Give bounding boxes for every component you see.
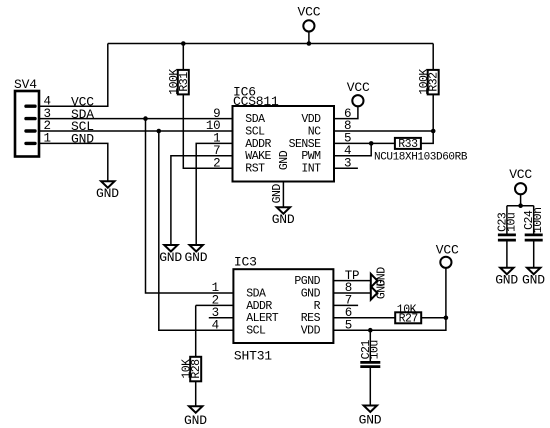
node junction R31/bus [181, 41, 186, 46]
svg-text:ADDR: ADDR [245, 138, 271, 151]
pin numbers IC6 right [344, 107, 351, 171]
wire IC6 WAKE to ground [171, 156, 233, 245]
svg-text:VDD: VDD [301, 325, 321, 338]
svg-text:VCC: VCC [509, 167, 532, 182]
resistor R33 thermistor [374, 131, 468, 164]
wire SCL from SV4 pin 2 to IC6 [39, 130, 233, 132]
wire IC3 ADDR pin 2 [196, 304, 234, 306]
svg-text:R33: R33 [398, 138, 418, 151]
svg-text:GND: GND [184, 413, 207, 428]
pin GND of IC6 down to ground [271, 182, 284, 208]
svg-text:GND: GND [359, 413, 382, 428]
svg-text:IC3: IC3 [234, 255, 257, 270]
ground symbol below C21 [359, 406, 382, 428]
wire IC6 VDD pin 6 to VCC [334, 106, 358, 118]
svg-text:WAKE: WAKE [245, 150, 271, 163]
wire IC6 NC pin 8 to R32 node [334, 130, 433, 132]
svg-text:R28: R28 [190, 359, 203, 379]
ground symbol right pin 8 [371, 279, 389, 299]
svg-text:VCC: VCC [436, 243, 459, 258]
wire IC3 VDD pin 5 to VCC node [333, 318, 446, 330]
svg-text:4: 4 [212, 318, 219, 332]
capacitor C24 100n [523, 206, 545, 268]
node SENSE/PWM junction [369, 141, 374, 146]
svg-text:RST: RST [245, 163, 265, 176]
svg-text:SHT31: SHT31 [234, 348, 272, 363]
resistor R32 100K pull-up [418, 44, 441, 132]
svg-text:GND: GND [271, 184, 284, 204]
svg-text:PWM: PWM [301, 150, 321, 163]
wire top VCC bus [108, 43, 433, 45]
wire IC6 ADDR to ground [196, 143, 232, 244]
svg-text:GND: GND [301, 287, 321, 300]
resistor R28 10K on ADDR [180, 305, 203, 406]
node VDD/C21 junction [368, 328, 373, 333]
svg-text:ALERT: ALERT [246, 312, 279, 325]
ground symbol WAKE [159, 245, 182, 265]
svg-text:SENSE: SENSE [289, 138, 322, 151]
power symbol VCC far right [509, 167, 532, 206]
wire VCC to C23 and C24 [507, 205, 534, 207]
svg-text:GND: GND [375, 279, 388, 299]
svg-text:ADDR: ADDR [246, 300, 272, 313]
svg-text:R32: R32 [428, 72, 441, 92]
wire SDA branch down to IC3 [146, 119, 234, 293]
ground symbol below C23 [495, 268, 518, 288]
svg-text:NC: NC [308, 125, 321, 138]
svg-text:VCC: VCC [347, 80, 370, 95]
svg-text:10K: 10K [397, 304, 417, 317]
svg-text:GND: GND [185, 250, 208, 265]
svg-text:PGND: PGND [294, 275, 320, 288]
svg-text:VCC: VCC [298, 5, 321, 20]
svg-text:VDD: VDD [301, 113, 321, 126]
svg-text:GND: GND [495, 273, 518, 288]
node RES/VCC junction [444, 316, 449, 321]
resistor R31 100K pull-up [168, 44, 233, 169]
node SDA branch junction [143, 116, 148, 121]
ground symbol below SV4 [96, 181, 119, 201]
wire SCL branch down to IC3 [159, 131, 234, 330]
ground symbol below IC6 [272, 207, 295, 227]
wire GND from SV4 pin 1 [39, 143, 108, 181]
power symbol VCC top [298, 5, 321, 44]
pin numbers IC3 left [212, 281, 219, 332]
svg-text:SCL: SCL [246, 325, 266, 338]
svg-text:GND: GND [522, 273, 545, 288]
svg-text:R: R [314, 300, 321, 313]
wire IC3 RES pin 6 to R27 [333, 317, 395, 319]
pin numbers IC3 right [345, 269, 359, 333]
capacitor C21 10u [360, 330, 382, 405]
wire IC6 PWM pin 4 up to SENSE [334, 143, 371, 155]
power symbol VCC at IC3 [436, 243, 459, 268]
wire VCC from SV4 pin 4 up to top bus [39, 44, 108, 107]
svg-text:R31: R31 [178, 72, 191, 92]
wire IC3 PGND TP to ground [333, 280, 370, 282]
svg-text:SDA: SDA [245, 113, 265, 126]
svg-text:2: 2 [213, 156, 220, 170]
IC U IC3 SHT31 [233, 255, 333, 364]
svg-text:SDA: SDA [246, 287, 266, 300]
svg-text:10u: 10u [505, 213, 518, 232]
ground symbol below C24 [522, 268, 545, 288]
ground symbol right TP [371, 267, 389, 287]
wire IC6 SENSE pin 5 to R33 [334, 142, 395, 144]
resistor R27 10K [395, 304, 446, 326]
node SCL branch junction [157, 129, 162, 134]
capacitor C23 10u [496, 206, 518, 268]
svg-text:10u: 10u [369, 340, 382, 359]
svg-text:INT: INT [301, 163, 321, 176]
svg-text:100n: 100n [532, 207, 545, 233]
svg-text:GND: GND [71, 132, 94, 147]
connector SV4 [14, 77, 51, 157]
svg-text:GND: GND [278, 150, 291, 170]
wire VCC riser at IC3 [445, 268, 447, 318]
op-amp/IC U IC6 CCS811 [233, 84, 335, 181]
ground symbol below R28 [184, 406, 207, 428]
node NC/R32/R33 junction [431, 129, 436, 134]
ground symbol ADDR [185, 245, 208, 265]
svg-text:SCL: SCL [245, 125, 265, 138]
svg-text:RES: RES [301, 312, 321, 325]
svg-text:CCS811: CCS811 [233, 94, 279, 109]
node VCC/C23/C24 junction [518, 203, 523, 208]
pin stub IC3 ALERT [209, 317, 234, 319]
svg-text:GND: GND [96, 186, 119, 201]
svg-text:SV4: SV4 [14, 77, 37, 92]
wire IC3 GND pin 8 to ground [333, 292, 370, 294]
pin numbers IC6 left [206, 107, 220, 171]
node junction VCC symbol/bus [307, 41, 312, 46]
svg-text:GND: GND [159, 250, 182, 265]
wire SDA from SV4 pin 3 to IC6 [39, 118, 233, 120]
pin stub IC3 R pin 7 [333, 304, 358, 306]
svg-text:GND: GND [272, 212, 295, 227]
pin stub IC6 INT pin 3 [334, 167, 358, 169]
power symbol VCC at IC6 [347, 80, 370, 106]
svg-text:NCU18XH103D60RB: NCU18XH103D60RB [374, 152, 468, 164]
